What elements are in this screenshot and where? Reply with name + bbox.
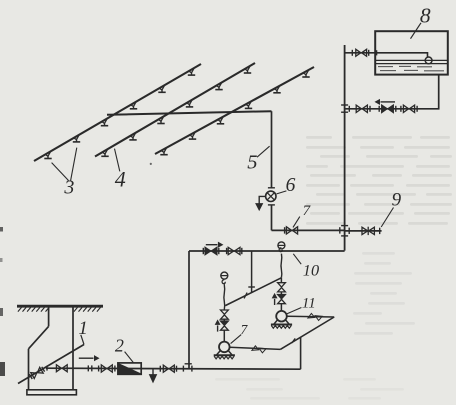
leader b for label 3 bbox=[71, 148, 77, 181]
drencher head on branch 1 #1 bbox=[44, 151, 51, 158]
well left wall upper bbox=[48, 306, 50, 326]
flange left of pre-filter valve bbox=[98, 366, 100, 372]
pressure gauge on right riser bbox=[278, 242, 285, 249]
leader for label 11 bbox=[286, 308, 302, 315]
deluge valve 6 (circle with cross) bbox=[266, 191, 276, 201]
suction valve in well bbox=[56, 365, 67, 372]
leader for label 7 bbox=[293, 217, 300, 228]
junction flanges at supply main and pipe 7 bbox=[340, 226, 349, 236]
flange above valve 6 bbox=[268, 187, 275, 189]
pump discharge manifold (diagonal) bbox=[225, 278, 281, 306]
leader a for label 3 bbox=[52, 163, 69, 181]
tank water shading dashes bbox=[378, 66, 444, 70]
pump header pipe 10 bbox=[189, 250, 345, 252]
drencher head on branch 2 #4 bbox=[186, 100, 193, 107]
drencher head on branch 2 #2 bbox=[129, 133, 136, 140]
label 7 (valve) bbox=[303, 203, 312, 219]
drain arrow below valve 6 bbox=[256, 204, 263, 210]
leader for label 2 bbox=[125, 352, 134, 363]
drop pipe from header bbox=[251, 251, 253, 293]
drencher head on branch 1 #3 bbox=[101, 119, 108, 126]
foot valve on intake pipe bbox=[29, 366, 45, 379]
label 5 bbox=[247, 152, 257, 174]
junction flanges at left connecting pipe bbox=[183, 364, 192, 372]
float feed pipe inside tank bbox=[377, 53, 428, 57]
check valve on header (filled) bbox=[205, 247, 217, 254]
svg-text:8: 8 bbox=[420, 4, 431, 28]
gate valve on suction main bbox=[163, 365, 174, 372]
valve on stub 9 bbox=[362, 227, 374, 235]
intake suction pipe (diagonal) bbox=[18, 345, 84, 384]
right riser to pump bbox=[280, 304, 282, 311]
left pump suction pipe bbox=[230, 347, 281, 349]
drencher head on branch 1 #5 bbox=[158, 85, 165, 92]
label 10 bbox=[303, 260, 319, 279]
tank wall sleeve bbox=[376, 50, 378, 55]
svg-text:10: 10 bbox=[303, 260, 319, 279]
label 2 bbox=[115, 335, 124, 355]
tank outlet pipe bbox=[345, 75, 439, 109]
suction valve at left pump bbox=[252, 346, 266, 353]
gauge hook on right riser bbox=[279, 248, 282, 252]
return line valve B bbox=[403, 105, 414, 112]
left connecting pipe bbox=[188, 251, 190, 369]
check valve on left riser bbox=[221, 321, 229, 330]
drencher head on branch 3 #5 bbox=[273, 86, 280, 93]
union on suction main bbox=[88, 365, 92, 371]
pre-filter valve bbox=[101, 365, 112, 372]
check valve on return line (filled) bbox=[382, 105, 394, 112]
drencher head on branch 1 #6 bbox=[188, 68, 195, 75]
distribution pipe 4a (left branch line) bbox=[34, 64, 201, 161]
supply main vertical pipe bbox=[344, 45, 346, 251]
flange right of main valve bbox=[176, 366, 178, 372]
junction flanges at tank return line bbox=[341, 105, 348, 112]
riser pipe 5 (lower segment) bbox=[271, 205, 273, 230]
label 8 bbox=[420, 4, 431, 28]
well base slab bbox=[27, 390, 77, 395]
label 7 (pump) bbox=[241, 322, 249, 337]
drencher head on branch 3 #4 bbox=[245, 101, 252, 108]
right pump riser upper segment bbox=[280, 254, 283, 278]
flow arrow on return line (to left) bbox=[376, 100, 396, 104]
pressure tank 8 bbox=[375, 31, 448, 74]
pressure gauge on left riser bbox=[221, 272, 228, 279]
check valve on right riser bbox=[278, 295, 286, 304]
drencher head on branch 3 #6 bbox=[302, 70, 309, 77]
flow arrow beside right riser (up) bbox=[273, 294, 277, 305]
riser pipe 5 (upper segment) bbox=[271, 111, 273, 187]
drencher head on branch 1 #2 bbox=[73, 135, 80, 142]
left riser segment bbox=[223, 319, 225, 321]
drain arrow after filter bbox=[150, 369, 157, 382]
distribution pipe 4c (right branch line) bbox=[155, 67, 314, 154]
right riser middle segment bbox=[280, 278, 282, 283]
well left wall lower bbox=[28, 349, 30, 390]
ground hatching bbox=[18, 307, 101, 311]
return line valve A bbox=[356, 105, 367, 112]
gate valve 7 bbox=[286, 227, 297, 234]
leader for label 5 bbox=[257, 146, 270, 157]
manifold pipe feeding branches bbox=[107, 111, 272, 115]
flow arrow beside left riser (up) bbox=[216, 320, 220, 331]
drencher head on branch 2 #6 bbox=[244, 66, 251, 73]
flange right of valve B bbox=[416, 106, 418, 112]
leader for label 10 bbox=[293, 254, 301, 264]
label 11 bbox=[302, 295, 316, 311]
right pump suction pipe bbox=[287, 315, 334, 318]
well right wall bbox=[72, 306, 74, 390]
label 4 bbox=[115, 166, 126, 191]
drencher head on branch 1 #4 bbox=[130, 102, 137, 109]
flange left of tank feed valve bbox=[351, 50, 353, 56]
leader for label 7 (pump) bbox=[231, 335, 242, 344]
flange below valve 6 bbox=[268, 204, 275, 206]
flange right of valve A bbox=[369, 106, 371, 112]
gate valve on header bbox=[228, 247, 240, 254]
flange right of check valve bbox=[395, 106, 397, 112]
suction valve at right pump bbox=[308, 313, 322, 320]
flange on discharge manifold bbox=[244, 293, 247, 299]
leader for label 9 bbox=[381, 208, 393, 228]
flange left of header check valve bbox=[202, 248, 204, 254]
flange on suction diagonal bbox=[292, 338, 295, 343]
pipe from riser 5 to supply main bbox=[272, 229, 345, 231]
drencher head on branch 2 #1 bbox=[101, 149, 108, 156]
drain stub from valve 6 bbox=[259, 196, 265, 203]
end flange of stub 9 bbox=[379, 228, 381, 234]
drencher head on branch 3 #1 bbox=[160, 148, 167, 155]
suction main pipe bbox=[46, 368, 301, 369]
gauge hook on left riser bbox=[222, 280, 225, 285]
svg-text:4: 4 bbox=[115, 166, 126, 191]
leader for label 4 bbox=[115, 149, 120, 172]
tank feed valve bbox=[356, 49, 367, 56]
flow arrow at well outlet (to right) bbox=[79, 356, 99, 360]
svg-text:6: 6 bbox=[286, 175, 296, 196]
suction diagonal pipe bbox=[280, 317, 334, 349]
distribution pipe 4b (middle branch line) bbox=[95, 63, 255, 157]
hose connection stub 9 bbox=[345, 230, 382, 232]
float ball in tank bbox=[425, 57, 432, 64]
svg-text:5: 5 bbox=[247, 152, 257, 174]
flange left of valve 7 bbox=[284, 227, 286, 233]
drencher head on branch 3 #2 bbox=[189, 132, 196, 139]
paper speck bbox=[150, 163, 152, 165]
label 6 bbox=[286, 175, 296, 196]
pump 11 bbox=[271, 311, 292, 328]
gate valve on left riser bbox=[221, 310, 229, 319]
tank water level second line bbox=[376, 63, 447, 65]
flow arrow on header (to right) bbox=[206, 243, 223, 247]
flange right of tank feed valve bbox=[368, 50, 370, 56]
flange left of check valve bbox=[378, 106, 380, 112]
filter 2 (strainer) bbox=[118, 363, 141, 374]
drencher head on branch 2 #5 bbox=[215, 83, 222, 90]
ground line over well bbox=[17, 305, 103, 308]
flange right of header valve bbox=[241, 248, 243, 254]
label 9 bbox=[392, 190, 402, 211]
flange left of main valve bbox=[159, 366, 161, 372]
well wall chamfer bbox=[29, 326, 49, 348]
flange left of header valve bbox=[226, 248, 228, 254]
left riser upper segment bbox=[223, 285, 226, 310]
right riser segment bbox=[280, 292, 282, 295]
gate valve on right riser bbox=[278, 283, 286, 292]
leader for label 8 bbox=[411, 23, 422, 39]
pump 7 bbox=[214, 342, 235, 359]
drencher head on branch 3 #3 bbox=[217, 117, 224, 124]
svg-text:3: 3 bbox=[63, 176, 74, 198]
flange right of pre-filter valve bbox=[114, 366, 116, 372]
leader for label 1 bbox=[81, 335, 84, 345]
label 1 bbox=[78, 318, 88, 339]
flange right of junction on return line bbox=[348, 106, 350, 112]
label 3 bbox=[63, 176, 74, 198]
flange right of header check valve bbox=[218, 248, 220, 254]
flange left of valve B bbox=[400, 106, 402, 112]
leader for label 6 bbox=[277, 191, 287, 194]
foot line start flange bbox=[46, 366, 48, 371]
svg-text:9: 9 bbox=[392, 190, 402, 211]
drencher head on branch 2 #3 bbox=[157, 116, 164, 123]
svg-text:2: 2 bbox=[115, 335, 124, 355]
tank feed pipe bbox=[345, 52, 376, 54]
tank water level line bbox=[376, 59, 447, 61]
left riser to pump bbox=[223, 330, 225, 341]
suction branch vertical bbox=[300, 337, 302, 369]
flange on drop pipe bbox=[248, 286, 255, 288]
svg-text:11: 11 bbox=[302, 295, 316, 311]
svg-text:1: 1 bbox=[78, 318, 88, 339]
